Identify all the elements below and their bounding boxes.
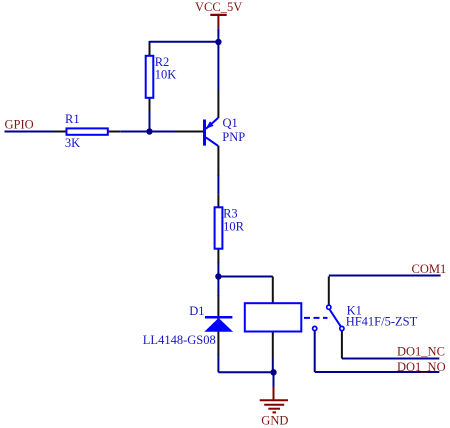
svg-text:Q1: Q1 [223,116,238,130]
svg-text:PNP: PNP [222,130,245,144]
svg-text:R1: R1 [65,112,80,126]
svg-text:DO1_NO: DO1_NO [397,360,446,374]
svg-text:10R: 10R [223,219,245,233]
svg-text:3K: 3K [65,136,80,150]
svg-text:VCC_5V: VCC_5V [195,0,242,14]
svg-text:DO1_NC: DO1_NC [397,345,445,359]
svg-text:10K: 10K [155,68,177,82]
svg-text:GPIO: GPIO [5,118,34,132]
svg-text:D1: D1 [189,304,204,318]
svg-text:GND: GND [261,413,288,427]
svg-text:COM1: COM1 [412,262,447,276]
svg-text:HF41F/5-ZST: HF41F/5-ZST [346,314,418,328]
svg-text:LL4148-GS08: LL4148-GS08 [143,333,216,347]
